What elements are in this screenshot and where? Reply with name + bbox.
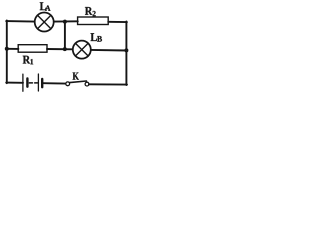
switch K left terminal	[66, 82, 70, 86]
wire left vertical	[6, 21, 8, 84]
node right middle	[124, 48, 128, 52]
resistor R1	[18, 45, 47, 53]
label R2	[85, 7, 96, 16]
wire top-left horizontal	[6, 20, 34, 23]
label K	[73, 73, 79, 80]
wire R2 to right corner	[108, 21, 127, 23]
wire LA to R2	[54, 20, 78, 22]
wire LB branch vertical	[64, 22, 66, 49]
label R1	[23, 56, 33, 65]
switch K right terminal	[85, 82, 89, 86]
node mid junction	[63, 47, 67, 51]
battery cell 2 long plate	[37, 74, 39, 91]
switch K lever	[70, 81, 87, 83]
resistor R2	[78, 17, 109, 25]
wire battery to switch	[43, 82, 66, 84]
wire switch to bottom-right	[89, 83, 127, 85]
wire left to R1	[7, 48, 19, 50]
battery cell 1 long plate	[22, 74, 24, 91]
wire R1 to mid junction	[47, 48, 73, 50]
label LB	[91, 33, 102, 41]
lamp LB	[73, 41, 91, 59]
lamp LA	[35, 13, 54, 32]
battery cell 2 short plate	[41, 79, 43, 87]
wire right vertical	[125, 21, 127, 85]
wire bottom-left to battery	[6, 82, 23, 84]
wire LB to right	[91, 49, 127, 52]
wire dashed between cells	[29, 82, 37, 84]
node left middle	[5, 47, 9, 51]
battery cell 1 short plate	[26, 79, 28, 87]
label LA	[40, 2, 51, 10]
node top junction	[63, 20, 67, 24]
